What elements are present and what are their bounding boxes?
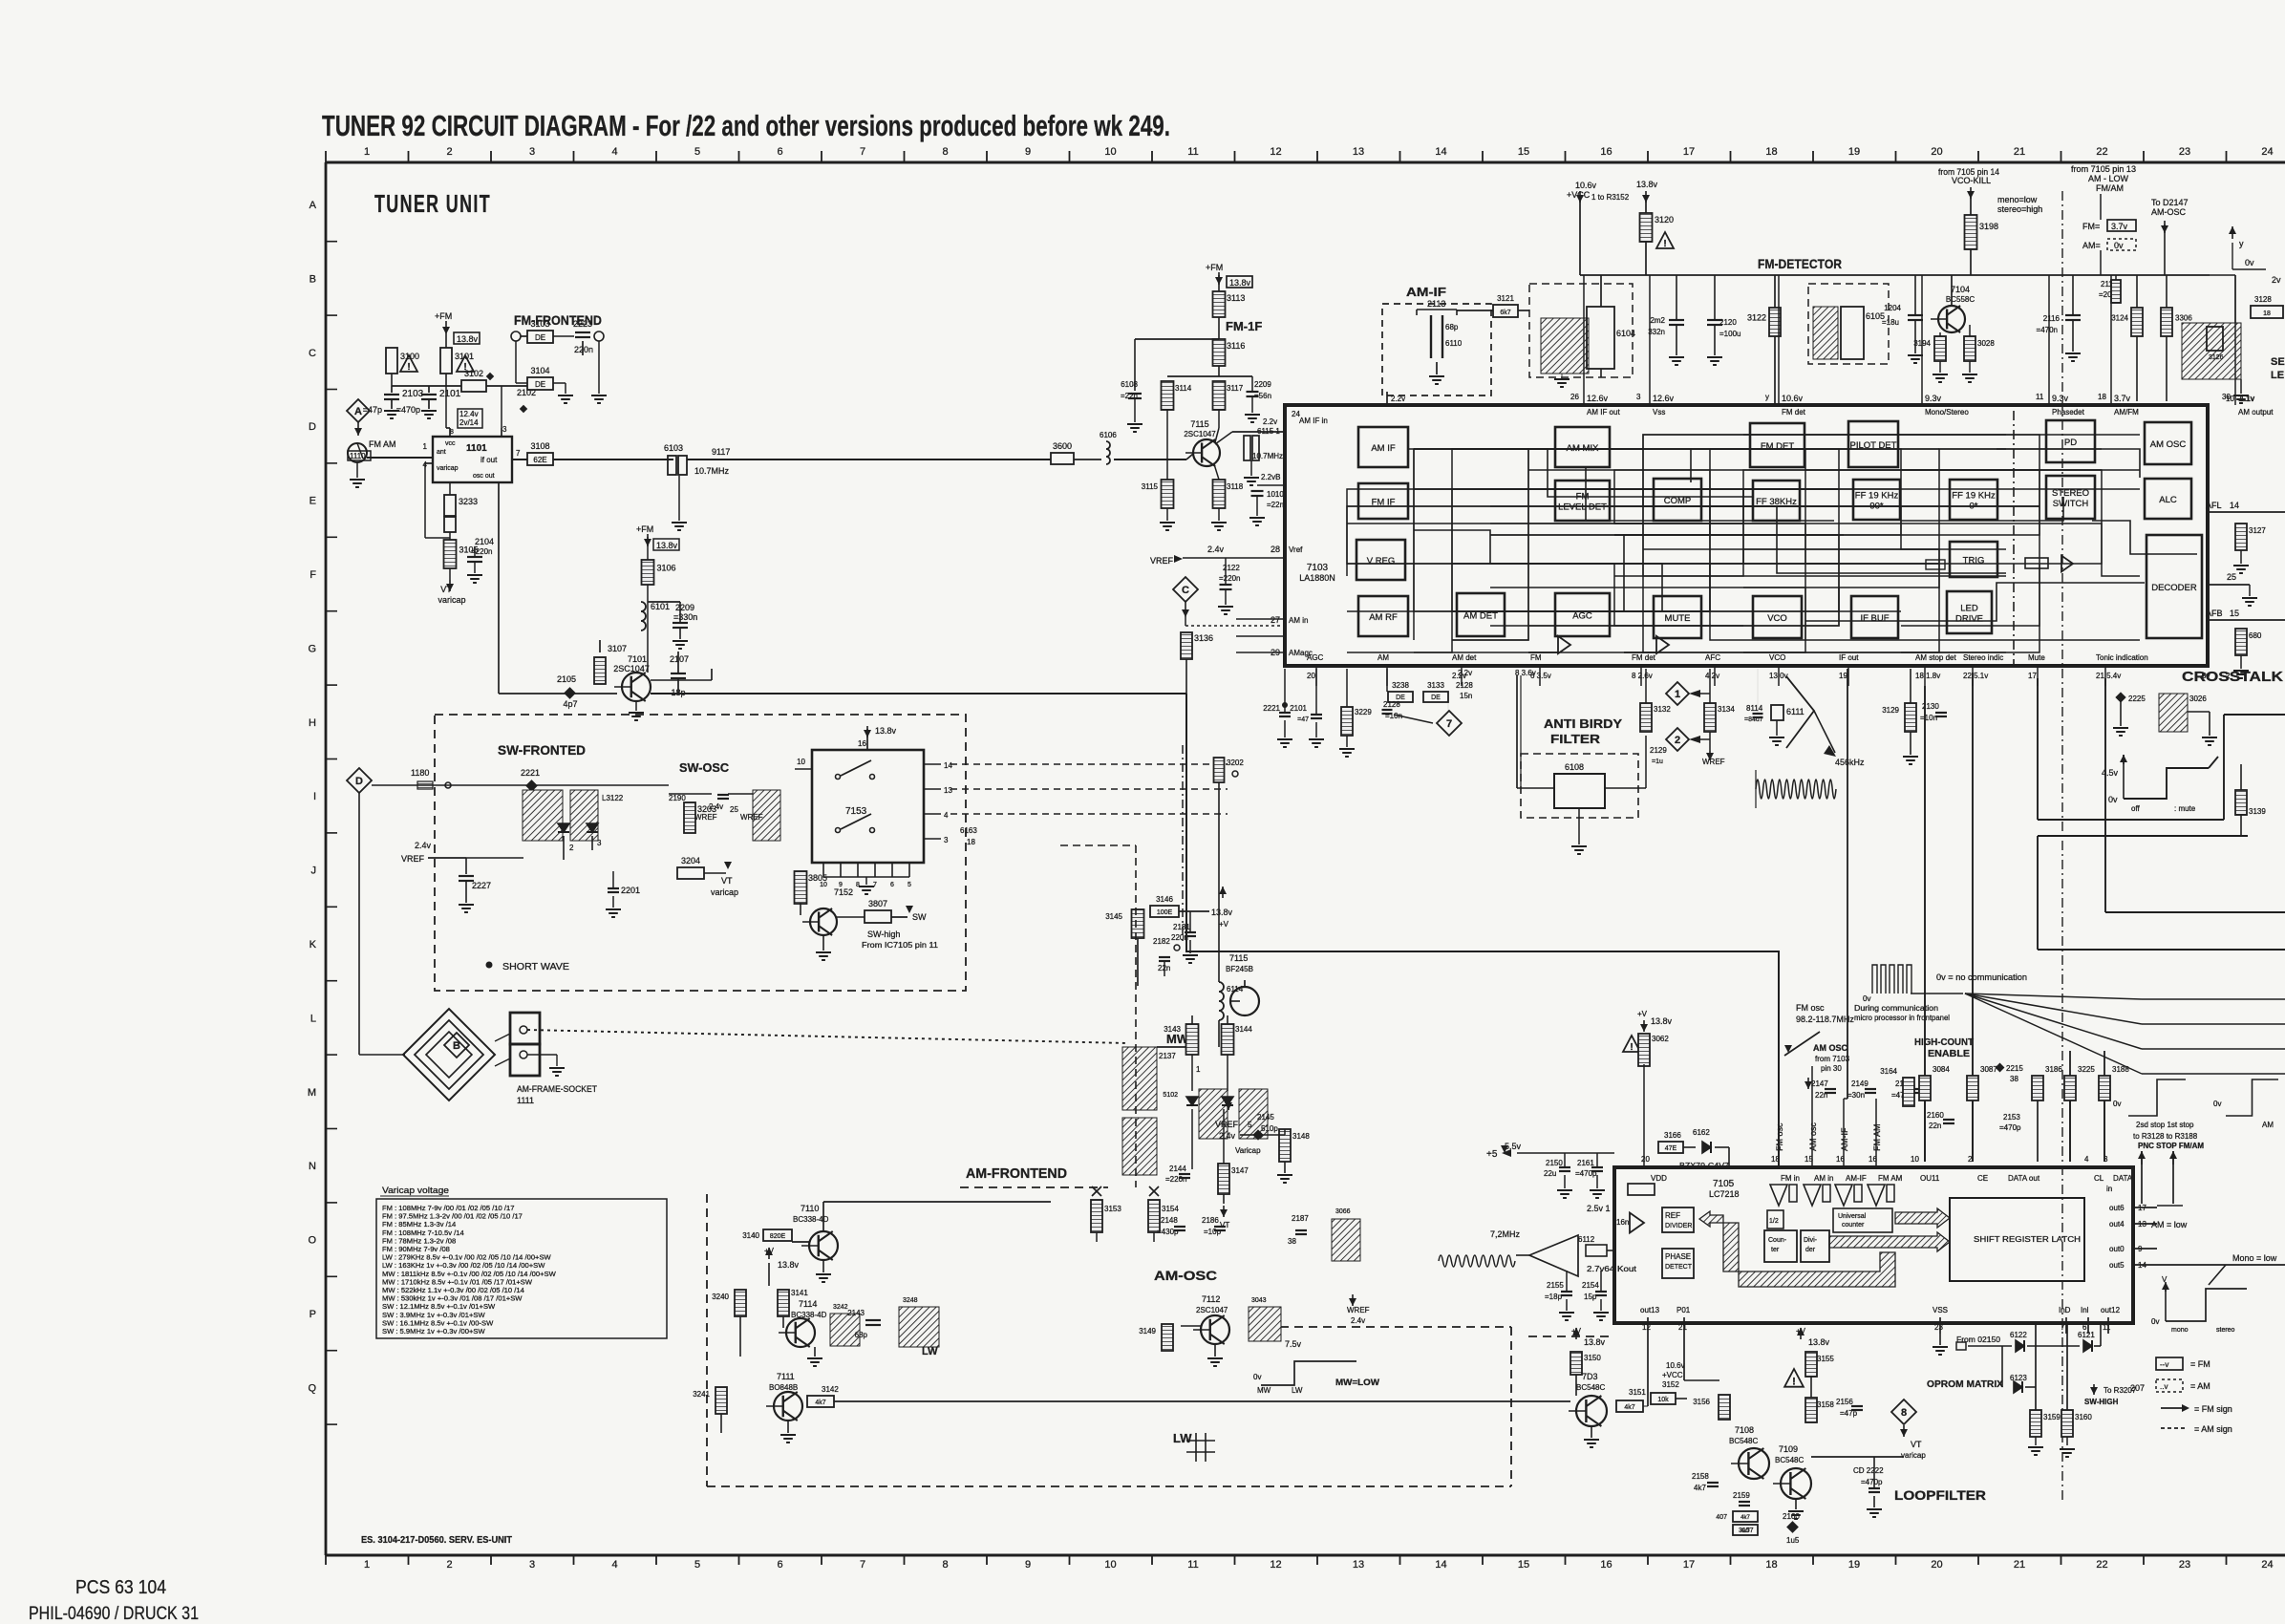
svg-text:Universal: Universal bbox=[1838, 1213, 1867, 1220]
svg-text:2160: 2160 bbox=[1927, 1111, 1944, 1120]
svg-text:AM OSC: AM OSC bbox=[1813, 1043, 1848, 1053]
svg-text:meno=low: meno=low bbox=[1997, 195, 2038, 204]
svg-text:3107: 3107 bbox=[608, 644, 627, 653]
svg-text:3026: 3026 bbox=[2189, 694, 2207, 703]
svg-text:3.7v: 3.7v bbox=[2111, 222, 2128, 231]
svg-text:7108: 7108 bbox=[1735, 1425, 1754, 1435]
svg-text:DRIVE: DRIVE bbox=[1955, 614, 1983, 625]
svg-text:REF: REF bbox=[1665, 1211, 1680, 1220]
svg-text:D: D bbox=[355, 776, 363, 787]
svg-text:AFB: AFB bbox=[2206, 609, 2223, 618]
svg-text:1 to R3152: 1 to R3152 bbox=[1591, 193, 1630, 202]
svg-text:SHORT WAVE: SHORT WAVE bbox=[502, 962, 569, 972]
svg-text:VT: VT bbox=[440, 585, 452, 594]
svg-text:+V: +V bbox=[1637, 1010, 1648, 1018]
svg-text:2161: 2161 bbox=[1577, 1159, 1594, 1167]
svg-text:28: 28 bbox=[1271, 545, 1280, 554]
svg-text:VREF: VREF bbox=[1215, 1120, 1239, 1129]
svg-text:13.8v: 13.8v bbox=[1636, 180, 1658, 189]
svg-text:18: 18 bbox=[1765, 146, 1777, 158]
svg-text:PD: PD bbox=[2064, 438, 2077, 448]
svg-text:DECODER: DECODER bbox=[2151, 583, 2197, 593]
svg-text:4 2v: 4 2v bbox=[1705, 672, 1719, 680]
svg-text:2149: 2149 bbox=[1851, 1079, 1869, 1088]
svg-text:2.4v: 2.4v bbox=[1219, 1131, 1236, 1141]
svg-text:2225: 2225 bbox=[2128, 694, 2146, 703]
svg-text:osc out: osc out bbox=[473, 473, 495, 480]
svg-text:PHASE: PHASE bbox=[1665, 1252, 1691, 1261]
svg-text:13.8v: 13.8v bbox=[1651, 1016, 1673, 1026]
svg-text:0v: 0v bbox=[1253, 1373, 1261, 1381]
svg-text:21: 21 bbox=[2014, 1559, 2025, 1571]
svg-text:21: 21 bbox=[2014, 146, 2025, 158]
svg-text:7114: 7114 bbox=[799, 1299, 817, 1309]
svg-text:16n: 16n bbox=[1616, 1218, 1629, 1227]
svg-text:2.2vB: 2.2vB bbox=[1261, 473, 1280, 481]
svg-text:820E: 820E bbox=[770, 1233, 786, 1240]
svg-text:3: 3 bbox=[2103, 1155, 2108, 1164]
svg-text:AM=: AM= bbox=[2082, 241, 2101, 250]
svg-text:9.3v: 9.3v bbox=[2052, 394, 2069, 403]
svg-text:18: 18 bbox=[967, 838, 975, 846]
svg-text:2SC1047: 2SC1047 bbox=[1184, 430, 1216, 438]
svg-text:=18u: =18u bbox=[1882, 318, 1899, 327]
svg-text:16: 16 bbox=[1600, 146, 1612, 158]
svg-text:3233: 3233 bbox=[459, 497, 478, 506]
svg-text:FM-1F: FM-1F bbox=[1226, 319, 1262, 333]
svg-text:12.6v: 12.6v bbox=[1653, 394, 1675, 403]
svg-text:3134: 3134 bbox=[1718, 705, 1735, 714]
svg-text:FM AM: FM AM bbox=[1878, 1174, 1903, 1183]
svg-text:15p: 15p bbox=[1584, 1293, 1597, 1301]
svg-text:6123: 6123 bbox=[2010, 1374, 2027, 1382]
svg-text:15: 15 bbox=[2230, 609, 2239, 618]
svg-text:AM-IF: AM-IF bbox=[1846, 1174, 1867, 1183]
svg-text:InD: InD bbox=[2059, 1306, 2071, 1314]
svg-text:AGC: AGC bbox=[1572, 611, 1592, 622]
svg-text:3240: 3240 bbox=[712, 1293, 729, 1301]
svg-text:BF245B: BF245B bbox=[1226, 965, 1253, 973]
svg-text:2.4v: 2.4v bbox=[415, 841, 432, 850]
svg-text:27: 27 bbox=[1271, 615, 1280, 625]
svg-text:AM OSC: AM OSC bbox=[2150, 439, 2187, 450]
svg-text:C: C bbox=[309, 348, 316, 359]
svg-text:3128: 3128 bbox=[2254, 295, 2272, 304]
svg-text:18: 18 bbox=[1765, 1559, 1777, 1571]
svg-text:out5: out5 bbox=[2109, 1261, 2125, 1270]
svg-text:=47: =47 bbox=[1297, 716, 1309, 723]
svg-text:3062: 3062 bbox=[1652, 1035, 1669, 1043]
svg-text:22: 22 bbox=[2096, 1559, 2107, 1571]
svg-text:22u: 22u bbox=[1544, 1169, 1556, 1178]
svg-text:6112: 6112 bbox=[1578, 1235, 1595, 1244]
svg-text:2.2v: 2.2v bbox=[1263, 417, 1277, 426]
svg-text:AM: AM bbox=[1377, 653, 1389, 662]
svg-text:LW: LW bbox=[922, 1346, 938, 1357]
svg-text:!: ! bbox=[1663, 239, 1666, 249]
svg-text:BZX79-C4V7: BZX79-C4V7 bbox=[1679, 1162, 1730, 1170]
svg-text:3150: 3150 bbox=[1584, 1354, 1601, 1362]
svg-text:5102: 5102 bbox=[1163, 1092, 1178, 1099]
svg-text:332n: 332n bbox=[1648, 328, 1665, 336]
svg-text:2116: 2116 bbox=[2043, 314, 2061, 323]
svg-text:mono: mono bbox=[2171, 1327, 2189, 1334]
svg-text:7105: 7105 bbox=[1713, 1179, 1735, 1189]
svg-text:3145: 3145 bbox=[1105, 912, 1122, 921]
svg-text:A: A bbox=[354, 406, 362, 417]
svg-text:5: 5 bbox=[908, 882, 911, 888]
svg-text:!: ! bbox=[407, 362, 410, 373]
svg-text:SW-OSC: SW-OSC bbox=[679, 760, 730, 775]
svg-text:3156: 3156 bbox=[1693, 1398, 1710, 1406]
svg-text:13.8v: 13.8v bbox=[656, 541, 678, 550]
svg-text:3151: 3151 bbox=[1629, 1388, 1646, 1397]
svg-text:4k7: 4k7 bbox=[815, 1400, 825, 1406]
svg-text:7115: 7115 bbox=[1190, 419, 1208, 429]
svg-text:AM-OSC: AM-OSC bbox=[1154, 1268, 1217, 1283]
svg-text:3115: 3115 bbox=[1142, 482, 1159, 491]
svg-text:in: in bbox=[2106, 1185, 2112, 1193]
svg-text:=470p: =470p bbox=[1999, 1123, 2021, 1132]
svg-text:=470p: =470p bbox=[1861, 1478, 1883, 1486]
svg-text:1.1v: 1.1v bbox=[2240, 395, 2254, 403]
svg-text:2SC1047: 2SC1047 bbox=[613, 664, 650, 673]
svg-text:3139: 3139 bbox=[2249, 807, 2266, 816]
svg-text:456kHz: 456kHz bbox=[1835, 758, 1865, 767]
svg-text:BC548C: BC548C bbox=[1775, 1456, 1804, 1464]
svg-text:=330n: =330n bbox=[673, 612, 697, 622]
svg-text:3242: 3242 bbox=[833, 1304, 848, 1311]
svg-text:10.6v: 10.6v bbox=[1575, 181, 1597, 190]
svg-text:to R3128 to R3188: to R3128 to R3188 bbox=[2133, 1132, 2198, 1141]
svg-text:AM DET: AM DET bbox=[1463, 611, 1498, 622]
svg-text:21: 21 bbox=[1678, 1323, 1687, 1332]
svg-text:+FM: +FM bbox=[636, 524, 653, 534]
svg-text:26: 26 bbox=[1570, 393, 1579, 401]
svg-text:7110: 7110 bbox=[801, 1204, 819, 1213]
svg-text:23: 23 bbox=[2179, 146, 2190, 158]
svg-text:VDD: VDD bbox=[1651, 1174, 1667, 1183]
svg-text:SW-FRONTED: SW-FRONTED bbox=[498, 742, 586, 758]
svg-text:SWITCH: SWITCH bbox=[2053, 499, 2089, 509]
svg-text:VSS: VSS bbox=[1933, 1306, 1948, 1314]
svg-text:C: C bbox=[1182, 585, 1189, 596]
svg-text:3028: 3028 bbox=[1977, 339, 1995, 348]
svg-text:VT: VT bbox=[721, 876, 733, 886]
svg-text:OPROM MATRIX: OPROM MATRIX bbox=[1927, 1379, 2003, 1390]
svg-text:ENABLE: ENABLE bbox=[1928, 1049, 1970, 1059]
svg-text:13.8v: 13.8v bbox=[1808, 1337, 1830, 1347]
svg-text:FF 19 KHz: FF 19 KHz bbox=[1855, 491, 1899, 502]
svg-text:3124: 3124 bbox=[2111, 314, 2128, 323]
svg-text:3154: 3154 bbox=[1162, 1205, 1179, 1213]
svg-text:Stereo indic: Stereo indic bbox=[1963, 653, 2003, 662]
svg-text:6110: 6110 bbox=[1445, 339, 1463, 348]
svg-text:= AM sign: = AM sign bbox=[2194, 1424, 2232, 1434]
svg-text:3148: 3148 bbox=[1292, 1132, 1310, 1141]
svg-text:+V: +V bbox=[764, 1247, 775, 1255]
svg-text:0v: 0v bbox=[2245, 258, 2254, 267]
svg-text:Vss: Vss bbox=[1653, 408, 1665, 417]
svg-text:varicap: varicap bbox=[438, 595, 465, 605]
svg-text:To D2147: To D2147 bbox=[2151, 198, 2189, 207]
svg-text:3: 3 bbox=[502, 425, 507, 434]
svg-text:AM-IF: AM-IF bbox=[1840, 1127, 1849, 1151]
svg-text:OU11: OU11 bbox=[1920, 1174, 1940, 1183]
svg-text:7.5v: 7.5v bbox=[1285, 1339, 1302, 1349]
svg-text:out0: out0 bbox=[2109, 1245, 2125, 1253]
svg-text:3: 3 bbox=[529, 1559, 535, 1571]
svg-text:Varicap: Varicap bbox=[1235, 1146, 1261, 1155]
svg-text:2215: 2215 bbox=[2006, 1064, 2023, 1073]
svg-text:out12: out12 bbox=[2101, 1306, 2121, 1314]
svg-text:3: 3 bbox=[1636, 393, 1641, 401]
svg-text:PNC STOP FM/AM: PNC STOP FM/AM bbox=[2138, 1142, 2204, 1150]
svg-text:17: 17 bbox=[2028, 672, 2037, 680]
svg-text:2102: 2102 bbox=[517, 388, 536, 397]
svg-text:2: 2 bbox=[446, 146, 452, 158]
svg-text:K: K bbox=[310, 939, 317, 951]
svg-text:=100u: =100u bbox=[1719, 330, 1740, 338]
svg-text:100E: 100E bbox=[1157, 909, 1173, 916]
svg-text:1: 1 bbox=[423, 442, 428, 451]
svg-text:220n: 220n bbox=[574, 345, 593, 354]
svg-text:15: 15 bbox=[1518, 146, 1529, 158]
svg-text:TRIG: TRIG bbox=[1963, 556, 1985, 566]
svg-text:13: 13 bbox=[944, 786, 952, 795]
svg-text:2227: 2227 bbox=[472, 881, 491, 890]
svg-text:DE: DE bbox=[1431, 694, 1441, 701]
svg-text:ES. 3104-217-D0560. SERV. ES-U: ES. 3104-217-D0560. SERV. ES-UNIT bbox=[361, 1535, 512, 1546]
svg-text:47E: 47E bbox=[1665, 1145, 1677, 1152]
svg-text:P: P bbox=[310, 1309, 316, 1320]
svg-text:..v: ..v bbox=[2160, 1382, 2168, 1391]
svg-text:8: 8 bbox=[1901, 1407, 1907, 1419]
svg-text:ALC: ALC bbox=[2159, 495, 2177, 505]
svg-text:!: ! bbox=[1630, 1042, 1633, 1053]
svg-text:2186: 2186 bbox=[1202, 1216, 1219, 1225]
svg-text:= FM: = FM bbox=[2190, 1359, 2210, 1369]
svg-text:AFL: AFL bbox=[2206, 501, 2222, 510]
svg-text:68p: 68p bbox=[855, 1331, 868, 1339]
svg-text:AM output: AM output bbox=[2238, 408, 2274, 417]
svg-text:WREF: WREF bbox=[1702, 758, 1725, 766]
svg-text:21 5.4v: 21 5.4v bbox=[2096, 672, 2121, 680]
svg-text:AM = low: AM = low bbox=[2151, 1220, 2188, 1229]
svg-text:1101: 1101 bbox=[466, 443, 487, 454]
svg-text:12: 12 bbox=[1642, 1323, 1651, 1332]
svg-text:DIVIDER: DIVIDER bbox=[1665, 1223, 1692, 1229]
svg-text:Coun-: Coun- bbox=[1768, 1237, 1787, 1244]
svg-text:2v/14: 2v/14 bbox=[459, 418, 479, 427]
svg-text:E: E bbox=[310, 496, 316, 507]
svg-text:3141: 3141 bbox=[791, 1289, 808, 1297]
svg-text:=220n: =220n bbox=[1219, 574, 1240, 583]
svg-text:19: 19 bbox=[1839, 672, 1847, 680]
svg-text:out6: out6 bbox=[2109, 1204, 2125, 1212]
svg-text:WREF: WREF bbox=[740, 813, 763, 822]
svg-text:3153: 3153 bbox=[1104, 1205, 1121, 1213]
svg-text:ant: ant bbox=[437, 449, 446, 456]
svg-text:10.7MHz: 10.7MHz bbox=[694, 466, 730, 476]
svg-text:0v = no communication: 0v = no communication bbox=[1936, 972, 2027, 982]
svg-text:14: 14 bbox=[944, 761, 952, 770]
svg-text:7: 7 bbox=[860, 1559, 865, 1571]
svg-text:WREF: WREF bbox=[1347, 1306, 1370, 1314]
svg-text:10.7MHz: 10.7MHz bbox=[1252, 452, 1283, 460]
svg-text:24: 24 bbox=[2261, 146, 2273, 158]
svg-text:12.4v: 12.4v bbox=[459, 410, 479, 418]
svg-text:2223: 2223 bbox=[573, 319, 592, 329]
svg-text:3159: 3159 bbox=[2043, 1413, 2061, 1421]
svg-text:2153: 2153 bbox=[2003, 1113, 2020, 1122]
svg-text:2.5v 1: 2.5v 1 bbox=[1587, 1204, 1611, 1213]
svg-text:SW-HIGH: SW-HIGH bbox=[2084, 1398, 2119, 1406]
svg-text:M: M bbox=[308, 1087, 316, 1099]
svg-text:2: 2 bbox=[446, 1559, 452, 1571]
svg-text:DE: DE bbox=[535, 380, 545, 389]
svg-text:TUNER 92 CIRCUIT DIAGRAM - For: TUNER 92 CIRCUIT DIAGRAM - For /22 and o… bbox=[322, 109, 1170, 142]
svg-text:3129: 3129 bbox=[1882, 706, 1899, 715]
svg-text:0v: 0v bbox=[2108, 795, 2118, 804]
svg-text:Vref: Vref bbox=[1289, 545, 1303, 554]
svg-text:13: 13 bbox=[1353, 146, 1364, 158]
svg-text:4.5v: 4.5v bbox=[2102, 768, 2119, 778]
svg-text:3066: 3066 bbox=[1335, 1208, 1351, 1215]
svg-text:3127: 3127 bbox=[2249, 526, 2266, 535]
svg-text:10: 10 bbox=[797, 758, 805, 766]
svg-text:2156: 2156 bbox=[1836, 1398, 1853, 1406]
svg-text:2187: 2187 bbox=[1292, 1214, 1309, 1223]
svg-text:+V: +V bbox=[1571, 1327, 1582, 1336]
svg-text:10.6v: 10.6v bbox=[1666, 1361, 1685, 1370]
svg-text:3103: 3103 bbox=[530, 319, 549, 329]
svg-text:2105: 2105 bbox=[557, 674, 576, 684]
svg-text:Mute: Mute bbox=[2028, 653, 2045, 662]
svg-text:11: 11 bbox=[1187, 146, 1198, 158]
svg-text:2143: 2143 bbox=[847, 1309, 865, 1317]
svg-text:2148: 2148 bbox=[1161, 1216, 1178, 1225]
svg-text:VT: VT bbox=[1911, 1440, 1922, 1449]
svg-text:6122: 6122 bbox=[2010, 1331, 2027, 1339]
svg-text:2221: 2221 bbox=[521, 768, 540, 778]
svg-text:FM=: FM= bbox=[2082, 222, 2100, 231]
svg-text:J: J bbox=[311, 865, 317, 877]
svg-text:if out: if out bbox=[480, 456, 498, 464]
svg-text:2: 2 bbox=[569, 844, 574, 852]
svg-text:5: 5 bbox=[1248, 1121, 1252, 1129]
svg-text:3136: 3136 bbox=[1194, 633, 1213, 643]
svg-text:y: y bbox=[2239, 239, 2244, 248]
svg-text:680: 680 bbox=[2249, 631, 2262, 640]
svg-text:CL: CL bbox=[2094, 1174, 2104, 1183]
svg-text:3204: 3204 bbox=[681, 856, 700, 865]
svg-text:5: 5 bbox=[694, 1559, 700, 1571]
svg-text:9117: 9117 bbox=[712, 447, 730, 457]
svg-text:Inl: Inl bbox=[2081, 1306, 2089, 1314]
svg-text:11: 11 bbox=[1187, 1559, 1198, 1571]
svg-text:3807: 3807 bbox=[868, 899, 887, 908]
svg-text:1: 1 bbox=[1675, 689, 1680, 700]
svg-text:62E: 62E bbox=[533, 456, 546, 464]
svg-text:2.2v: 2.2v bbox=[1391, 395, 1405, 403]
svg-text:18: 18 bbox=[2098, 393, 2106, 401]
svg-text:=10p: =10p bbox=[1204, 1228, 1222, 1236]
svg-text:3143: 3143 bbox=[1164, 1025, 1181, 1034]
svg-text:2190: 2190 bbox=[669, 794, 686, 802]
svg-text:3126: 3126 bbox=[2209, 354, 2224, 361]
svg-text:7: 7 bbox=[2061, 1323, 2065, 1332]
svg-text:23: 23 bbox=[1934, 1323, 1943, 1332]
svg-text:10k: 10k bbox=[1657, 1397, 1669, 1403]
svg-text:AM - LOW: AM - LOW bbox=[2088, 174, 2129, 183]
svg-text:9.3v: 9.3v bbox=[1925, 394, 1942, 403]
svg-text:8: 8 bbox=[942, 1559, 948, 1571]
svg-text:6106: 6106 bbox=[1100, 431, 1117, 439]
svg-text:FM/AM: FM/AM bbox=[2096, 183, 2124, 193]
svg-text:2.7v64 Kout: 2.7v64 Kout bbox=[1587, 1265, 1637, 1273]
svg-text:L3122: L3122 bbox=[602, 794, 624, 802]
svg-text:25: 25 bbox=[2227, 572, 2236, 582]
svg-text:2155: 2155 bbox=[1547, 1281, 1564, 1290]
svg-text:AM RF: AM RF bbox=[1369, 612, 1398, 623]
svg-text:2v: 2v bbox=[2272, 275, 2281, 285]
svg-text:407: 407 bbox=[1716, 1514, 1727, 1521]
svg-text:=10n: =10n bbox=[1920, 714, 1937, 722]
svg-text:varicap: varicap bbox=[1901, 1451, 1926, 1460]
svg-text:0v: 0v bbox=[2151, 1317, 2159, 1326]
svg-text:10.6v: 10.6v bbox=[1782, 394, 1804, 403]
svg-text:LC7218: LC7218 bbox=[1709, 1189, 1740, 1199]
svg-text:3164: 3164 bbox=[1880, 1067, 1897, 1076]
svg-text:7D3: 7D3 bbox=[1582, 1372, 1598, 1381]
svg-text:7112: 7112 bbox=[1202, 1294, 1220, 1304]
svg-text:=22n: =22n bbox=[1267, 501, 1284, 509]
svg-text:13.8v: 13.8v bbox=[457, 334, 479, 344]
svg-text:2159: 2159 bbox=[1733, 1491, 1750, 1500]
svg-text:LE: LE bbox=[2271, 370, 2284, 381]
svg-text:2104: 2104 bbox=[475, 537, 494, 546]
svg-text:10: 10 bbox=[1104, 146, 1116, 158]
svg-text:3186: 3186 bbox=[2045, 1065, 2062, 1074]
svg-text:6111: 6111 bbox=[1786, 707, 1805, 716]
svg-text:7111: 7111 bbox=[777, 1372, 795, 1381]
svg-text:out13: out13 bbox=[1640, 1306, 1660, 1314]
svg-text:VREF: VREF bbox=[1150, 556, 1174, 566]
svg-text:1: 1 bbox=[1196, 1065, 1201, 1074]
svg-text:3108: 3108 bbox=[530, 441, 549, 451]
svg-text:3122: 3122 bbox=[1747, 313, 1766, 323]
svg-text:DETECT: DETECT bbox=[1665, 1264, 1693, 1271]
svg-text:2209: 2209 bbox=[675, 603, 694, 612]
svg-text:FM det: FM det bbox=[1632, 653, 1656, 662]
svg-text:3144: 3144 bbox=[1235, 1025, 1252, 1034]
svg-text:N: N bbox=[309, 1161, 316, 1172]
svg-text:Mono = low: Mono = low bbox=[2232, 1253, 2277, 1263]
svg-text:= AM: = AM bbox=[2190, 1381, 2210, 1391]
svg-text:7: 7 bbox=[1446, 718, 1452, 730]
svg-text:FF 19 KHz: FF 19 KHz bbox=[1952, 491, 1996, 502]
svg-text:AM stop det: AM stop det bbox=[1915, 653, 1956, 662]
svg-text:7109: 7109 bbox=[1779, 1444, 1798, 1454]
svg-text:20: 20 bbox=[1307, 672, 1315, 680]
svg-text:6k7: 6k7 bbox=[1500, 310, 1510, 316]
svg-text:2181: 2181 bbox=[1173, 923, 1190, 931]
svg-text:4p7: 4p7 bbox=[563, 699, 577, 709]
svg-text:3805: 3805 bbox=[808, 873, 827, 883]
svg-text:+VCC: +VCC bbox=[1662, 1371, 1683, 1379]
svg-text:AM IF out: AM IF out bbox=[1587, 408, 1620, 417]
